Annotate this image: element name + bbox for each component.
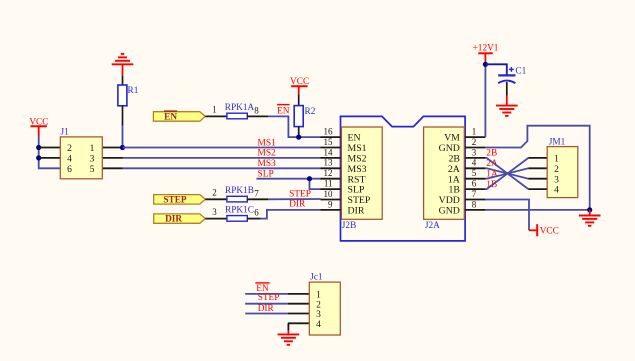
svg-text:STEP: STEP [258, 293, 280, 303]
svg-text:JM1: JM1 [549, 138, 566, 148]
svg-text:MS3: MS3 [258, 159, 277, 169]
power VCC (above R2) [290, 77, 309, 95]
svg-text:MS2: MS2 [258, 149, 277, 159]
svg-text:STEP: STEP [289, 189, 311, 199]
net label STEP (at Jc1) [258, 293, 280, 303]
net label STEP [289, 189, 311, 199]
wire SLP net to pins 12 and 11 [257, 179, 321, 189]
net label MS2 [258, 149, 277, 159]
junction (GND net, bottom right) [587, 207, 592, 212]
svg-text:EN: EN [277, 106, 290, 116]
resistor R2 [294, 95, 316, 138]
net label DIR (at Jc1) [258, 304, 275, 314]
svg-text:1: 1 [90, 144, 95, 154]
svg-text:16: 16 [324, 127, 334, 137]
port DIR [154, 214, 206, 225]
svg-text:10: 10 [324, 189, 334, 199]
svg-text:2A: 2A [448, 164, 460, 175]
IC J2B [321, 127, 383, 232]
svg-text:1: 1 [472, 127, 477, 137]
net label SLP [258, 169, 274, 179]
svg-text:1: 1 [554, 155, 559, 165]
svg-text:MS1: MS1 [348, 143, 367, 154]
svg-text:GND: GND [439, 206, 460, 217]
connector JM1 [528, 138, 577, 198]
svg-text:3: 3 [316, 310, 321, 320]
wire J2A pin8 GND [485, 209, 589, 211]
svg-text:2B: 2B [486, 149, 497, 159]
ground (bottom right) [579, 210, 601, 226]
wire DIR to Jc1 pin3 [245, 313, 288, 315]
svg-text:RPK1C: RPK1C [225, 205, 254, 215]
junction (VCC / J1 pin 4) [36, 155, 41, 160]
wire J2A pin2 GND loop over JM1 [485, 126, 589, 210]
svg-text:15: 15 [324, 137, 334, 147]
wire crossover 2A to JM1 pin3 [485, 168, 528, 178]
svg-text:2: 2 [67, 144, 72, 154]
svg-text:4: 4 [554, 186, 559, 196]
capacitor C1 [498, 67, 526, 96]
svg-text:MS3: MS3 [348, 164, 367, 175]
svg-text:9: 9 [328, 199, 333, 209]
net label 1B [486, 180, 497, 190]
junction (SLP branch) [307, 176, 312, 181]
svg-text:SLP: SLP [348, 185, 365, 196]
net label 2A [486, 159, 498, 169]
net label MS1 [258, 138, 277, 148]
junction (VCC / J1 pin 2) [36, 145, 41, 150]
resistor RPK1C [205, 205, 260, 221]
svg-text:DIR: DIR [165, 215, 182, 225]
svg-text:5: 5 [472, 168, 477, 178]
connector Jc1 [288, 272, 340, 335]
svg-text:2: 2 [554, 165, 559, 175]
svg-text:1: 1 [316, 291, 321, 301]
wire VCC to J1 pins 2,4,6 [39, 137, 61, 169]
svg-text:3: 3 [212, 207, 217, 217]
svg-text:Jc1: Jc1 [310, 272, 323, 282]
svg-text:14: 14 [324, 147, 334, 157]
svg-text:J2B: J2B [342, 221, 356, 231]
wire crossover 2B to JM1 pin4 [485, 158, 528, 189]
IC J2A [424, 127, 486, 232]
power VCC (right, bar style) [529, 224, 559, 236]
wire STEP to Jc1 pin2 [245, 303, 288, 305]
svg-text:4: 4 [472, 158, 477, 168]
svg-text:5: 5 [90, 165, 95, 175]
wire Jc1 pin4 to ground [287, 323, 289, 330]
svg-text:+12V1: +12V1 [473, 44, 499, 54]
svg-text:SLP: SLP [258, 169, 274, 179]
wire RPK1B pin7 to J2B pin10 [268, 198, 321, 200]
svg-text:STEP: STEP [163, 195, 187, 205]
svg-text:3: 3 [554, 175, 559, 185]
svg-text:4: 4 [316, 320, 321, 330]
wire EN to Jc1 pin1 [245, 293, 288, 295]
svg-text:12: 12 [324, 168, 333, 178]
svg-text:7: 7 [472, 189, 477, 199]
junction (J1 pin1 / R1 / MS1) [120, 145, 125, 150]
wire MS2 [123, 157, 321, 159]
net label MS3 [258, 159, 277, 169]
svg-text:DIR: DIR [289, 199, 306, 209]
svg-text:2: 2 [316, 300, 321, 310]
svg-text:6: 6 [254, 208, 259, 218]
ground (below Jc1) [278, 331, 300, 345]
svg-text:11: 11 [324, 179, 333, 189]
svg-text:VCC: VCC [290, 77, 309, 87]
wire R1 to MS1 net [122, 126, 124, 148]
wire RPK1A pin8 to J2B pin16 [268, 116, 321, 137]
svg-text:13: 13 [324, 158, 334, 168]
svg-text:2: 2 [212, 188, 217, 198]
svg-text:4: 4 [67, 155, 72, 165]
svg-text:C1: C1 [515, 67, 526, 77]
resistor R1 [118, 75, 139, 126]
svg-text:7: 7 [254, 188, 259, 198]
junction (+12V1 / C1) [483, 62, 488, 67]
junction (R2 / EN wire / pin16) [296, 135, 301, 140]
svg-text:VCC: VCC [540, 227, 559, 237]
svg-text:MS1: MS1 [258, 138, 277, 148]
svg-text:8: 8 [254, 105, 259, 115]
svg-text:GND: GND [439, 143, 460, 154]
svg-text:MS2: MS2 [348, 154, 367, 165]
wire crossover 1B to JM1 pin1 [485, 158, 528, 189]
ground (below C1) [496, 96, 518, 116]
wire RPK1C pin6 to J2B pin9 [261, 210, 321, 219]
wire crossover 1A to JM1 pin2 [485, 168, 528, 178]
svg-text:6: 6 [472, 179, 477, 189]
wire junction to C1 [485, 64, 506, 74]
IC J2 outer outline (notched box) [341, 116, 466, 240]
svg-text:VM: VM [444, 133, 460, 144]
net label 1A [486, 169, 498, 179]
svg-text:1: 1 [212, 105, 217, 115]
svg-text:6: 6 [67, 165, 72, 175]
svg-text:2B: 2B [448, 154, 460, 165]
svg-text:VDD: VDD [439, 195, 460, 206]
svg-text:RST: RST [348, 174, 366, 185]
port STEP [154, 195, 206, 206]
svg-text:RPK1A: RPK1A [225, 103, 255, 113]
wire +12V1 to J2A pin1 [484, 61, 486, 137]
svg-text:R1: R1 [128, 86, 139, 96]
svg-text:8: 8 [472, 199, 477, 209]
svg-text:J1: J1 [61, 127, 70, 137]
svg-text:R2: R2 [305, 107, 316, 117]
resistor RPK1A [205, 103, 268, 119]
svg-text:1A: 1A [448, 174, 460, 185]
svg-text:DIR: DIR [258, 304, 275, 314]
wire MS1 [123, 147, 321, 149]
svg-text:DIR: DIR [348, 206, 365, 217]
svg-text:VCC: VCC [29, 117, 48, 127]
wire J2A pin7 VDD to VCC [485, 200, 529, 231]
svg-text:1B: 1B [448, 185, 460, 196]
svg-text:EN: EN [348, 133, 361, 144]
svg-text:EN: EN [164, 113, 177, 123]
svg-text:2: 2 [472, 137, 477, 147]
net label EN (overline, at Jc1) [255, 283, 269, 294]
power VCC (left) [29, 117, 48, 136]
resistor RPK1B [205, 186, 268, 202]
port EN [153, 111, 205, 122]
svg-text:J2A: J2A [425, 221, 440, 231]
connector J1 [39, 127, 123, 178]
power +12V1 [473, 44, 499, 61]
svg-text:RPK1B: RPK1B [225, 186, 254, 196]
net label DIR [289, 199, 306, 209]
net label 2B [486, 149, 497, 159]
svg-text:3: 3 [90, 155, 95, 165]
svg-text:STEP: STEP [348, 195, 371, 206]
net label EN (overline) [277, 105, 290, 117]
svg-text:3: 3 [472, 147, 477, 157]
wire MS3 [123, 167, 321, 169]
ground (top-left, above R1) [112, 54, 134, 75]
